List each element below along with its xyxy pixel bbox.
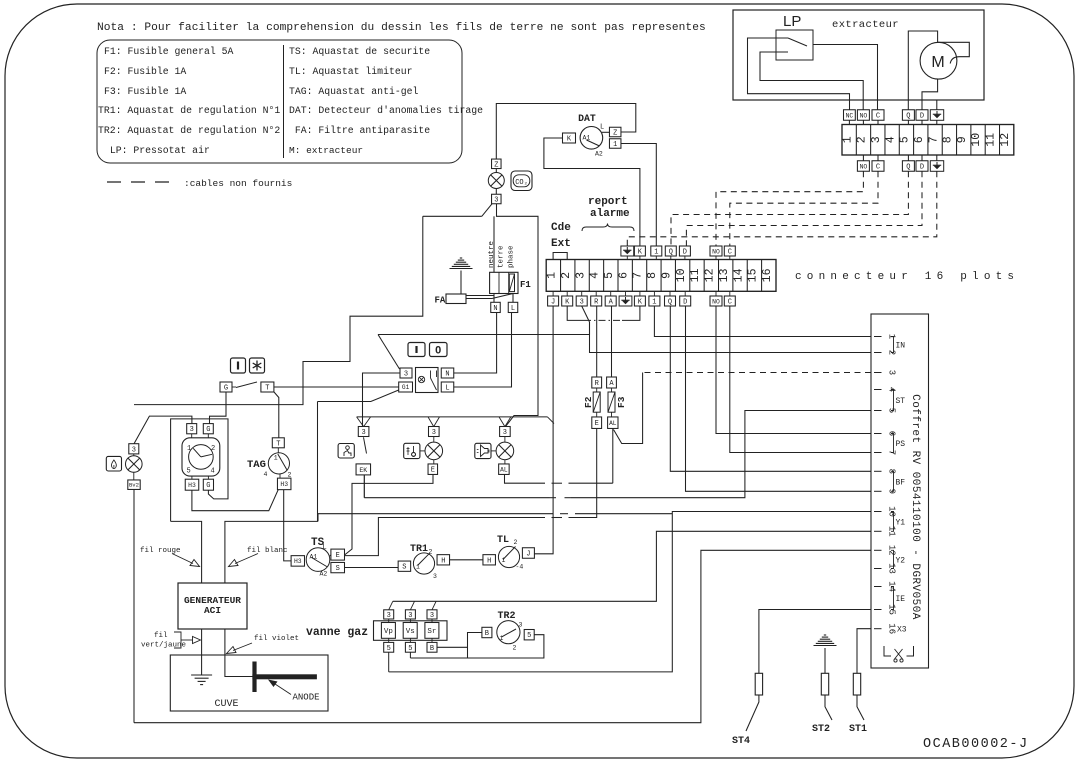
relay box bbox=[416, 368, 439, 393]
terminal E TS bbox=[331, 549, 345, 560]
wire TS E riser bbox=[345, 518, 546, 556]
wire DAT Z to lamp Z bbox=[496, 104, 636, 160]
svg-text:E: E bbox=[595, 420, 599, 428]
coffret pin 10 bbox=[874, 511, 882, 513]
svg-text:10: 10 bbox=[675, 268, 688, 282]
svg-text:12: 12 bbox=[999, 133, 1012, 147]
vanne 3 diagonals bbox=[389, 601, 393, 610]
svg-text:F3: Fusible 1A: F3: Fusible 1A bbox=[104, 86, 186, 97]
signal lamp E bbox=[425, 442, 443, 460]
svg-text:IE: IE bbox=[896, 595, 906, 604]
horn symbol box bbox=[475, 443, 491, 458]
svg-text:11: 11 bbox=[985, 133, 998, 147]
svg-text::cables non fournis: :cables non fournis bbox=[184, 178, 292, 189]
svg-text:H3: H3 bbox=[294, 558, 302, 565]
svg-text:9: 9 bbox=[956, 136, 969, 143]
terminal H TR1 bbox=[437, 555, 450, 565]
wire lamp node down to AL 3 bbox=[497, 204, 539, 427]
terminal Z DAT bbox=[609, 127, 621, 137]
svg-text:H: H bbox=[441, 557, 445, 565]
terminal S TS bbox=[331, 562, 345, 572]
terminal 3 clock bbox=[187, 424, 197, 434]
svg-text:L: L bbox=[445, 385, 449, 393]
wire A down to F3 bbox=[611, 306, 613, 377]
svg-text:3: 3 bbox=[132, 446, 136, 454]
svg-text:3: 3 bbox=[190, 426, 194, 434]
svg-text:X3: X3 bbox=[897, 626, 907, 635]
wire F3 AL down bbox=[612, 429, 614, 484]
fuse F1 bbox=[509, 274, 514, 292]
svg-text:S: S bbox=[402, 564, 406, 572]
valve Vs box bbox=[403, 623, 417, 639]
terminal E lamp bbox=[428, 464, 438, 475]
ST4 leader bbox=[746, 695, 759, 731]
svg-text:5: 5 bbox=[408, 645, 412, 653]
svg-text:5: 5 bbox=[387, 645, 391, 653]
svg-text:3: 3 bbox=[430, 612, 434, 620]
svg-text:8: 8 bbox=[646, 272, 659, 279]
svg-text:fil rouge: fil rouge bbox=[140, 547, 181, 555]
svg-text:fil blanc: fil blanc bbox=[247, 547, 288, 555]
filter FA box bbox=[446, 294, 466, 304]
coffret pin 7 bbox=[874, 452, 882, 454]
terminal earth above 16-plot bbox=[621, 246, 634, 256]
svg-text:Vp: Vp bbox=[384, 628, 393, 636]
svg-text:Vs: Vs bbox=[406, 628, 415, 636]
svg-text:11: 11 bbox=[689, 268, 702, 282]
svg-text:L: L bbox=[323, 544, 327, 552]
svg-text:neutre: neutre bbox=[488, 241, 496, 268]
svg-text:3: 3 bbox=[494, 197, 498, 205]
fuse F2 bbox=[593, 392, 600, 412]
wire LP NC bbox=[748, 38, 850, 110]
coffret pin 14 bbox=[874, 586, 882, 588]
svg-text:2: 2 bbox=[513, 645, 517, 652]
wire pin11 to vanne gaz 3 bbox=[393, 531, 871, 601]
terminal L FA bbox=[508, 302, 518, 312]
terminal AL F3 bbox=[608, 417, 618, 429]
svg-text:S: S bbox=[336, 565, 340, 573]
svg-text:TS: Aquastat de securite: TS: Aquastat de securite bbox=[289, 46, 430, 57]
svg-text:F2: F2 bbox=[583, 396, 594, 408]
terminal 1 above 16-plot bbox=[651, 246, 662, 256]
terminal J TL bbox=[522, 548, 534, 559]
terminal D lower 12plot bbox=[916, 161, 928, 172]
thermostat TR1 circle bbox=[413, 553, 434, 574]
fil rouge arrow bbox=[172, 554, 193, 564]
wire DAT 1 to connector 1 bbox=[621, 144, 656, 247]
svg-text:ANODE: ANODE bbox=[293, 693, 320, 703]
TL blade bbox=[503, 547, 516, 560]
svg-text:N: N bbox=[493, 305, 497, 313]
fil violet arrow bbox=[233, 643, 252, 651]
vanne gaz outer box bbox=[374, 621, 448, 641]
svg-text:8: 8 bbox=[942, 136, 955, 143]
svg-text:3: 3 bbox=[432, 429, 436, 437]
connector 12 plots strip bbox=[842, 125, 1014, 156]
terminal 1 below 16-plot bbox=[649, 296, 660, 306]
svg-text:FA: Filtre antiparasite: FA: Filtre antiparasite bbox=[289, 125, 430, 136]
terminal 3 below 16-plot bbox=[576, 296, 587, 306]
wire EK riser bbox=[364, 497, 549, 499]
coffret pin 16 bbox=[874, 628, 882, 630]
svg-text:F3: F3 bbox=[616, 396, 627, 408]
svg-text:Q: Q bbox=[668, 299, 672, 307]
wire generator anode bbox=[225, 629, 253, 677]
svg-text:vanne gaz: vanne gaz bbox=[306, 626, 368, 639]
svg-text:Cde: Cde bbox=[551, 222, 571, 234]
stub wires 12-plot bottom bbox=[862, 155, 864, 161]
svg-text:Bv2: Bv2 bbox=[129, 482, 139, 489]
terminal T TAG bbox=[272, 438, 284, 448]
coffret pin 2 bbox=[874, 352, 882, 354]
svg-text:OCAB00002-J: OCAB00002-J bbox=[923, 737, 1029, 752]
svg-text:4: 4 bbox=[589, 272, 602, 279]
svg-text:BF: BF bbox=[896, 478, 906, 487]
terminal 3 Vp bbox=[384, 610, 394, 619]
svg-text:NO: NO bbox=[712, 298, 720, 305]
wire motor Q bbox=[908, 31, 937, 110]
earth symbol FA bbox=[460, 257, 462, 259]
svg-text:E: E bbox=[336, 552, 340, 560]
EK switch blade bbox=[364, 437, 367, 453]
terminal 5 Vp bbox=[384, 642, 394, 652]
dashed cable earth to earth bbox=[627, 171, 937, 246]
terminal E F2 bbox=[592, 417, 602, 429]
svg-text:5: 5 bbox=[527, 632, 531, 640]
svg-text:LP: Pressotat air: LP: Pressotat air bbox=[104, 145, 210, 156]
wire lamp switch left to big loop bbox=[423, 215, 482, 217]
svg-text:TL: TL bbox=[497, 535, 509, 546]
wire G1 to fil blanc bbox=[225, 402, 318, 584]
stub wires 12-plot top bbox=[848, 120, 850, 124]
svg-text:EK: EK bbox=[359, 467, 367, 474]
svg-text:FA: FA bbox=[435, 296, 446, 306]
svg-text:B: B bbox=[430, 645, 434, 653]
svg-text:3: 3 bbox=[574, 272, 587, 279]
clock stubs bbox=[191, 434, 193, 438]
terminal 3 AL lamp bbox=[500, 427, 511, 437]
wire clock bracket bbox=[171, 419, 228, 522]
svg-text:E: E bbox=[431, 467, 435, 475]
svg-text:D: D bbox=[683, 249, 687, 257]
svg-text:LP: LP bbox=[783, 13, 801, 30]
svg-text:extracteur: extracteur bbox=[832, 19, 899, 31]
svg-text:ST4: ST4 bbox=[732, 736, 750, 747]
svg-text:ST: ST bbox=[896, 397, 906, 406]
svg-text:ACI: ACI bbox=[204, 605, 221, 616]
terminal G clock bottom bbox=[203, 479, 213, 490]
svg-text:H: H bbox=[487, 557, 491, 565]
wire TR1 H to TL H bbox=[450, 559, 483, 561]
wire Sr B to TR2 B bbox=[437, 646, 468, 648]
svg-text:H3: H3 bbox=[188, 482, 196, 489]
terminal A below 16-plot bbox=[605, 296, 616, 306]
svg-text:1: 1 bbox=[652, 299, 656, 307]
wire T down to TAG T bbox=[274, 392, 279, 438]
terminal EK bbox=[356, 464, 371, 475]
wire Vp 5 down bbox=[388, 652, 390, 672]
wire T to G1 bbox=[274, 386, 399, 388]
svg-text:F2: Fusible 1A: F2: Fusible 1A bbox=[104, 66, 186, 77]
svg-text:G1: G1 bbox=[402, 384, 410, 391]
terminal C upper bbox=[872, 110, 884, 121]
terminal Q below 16-plot bbox=[665, 296, 676, 306]
svg-text:M: extracteur: M: extracteur bbox=[289, 145, 363, 156]
svg-text:terre: terre bbox=[498, 245, 506, 268]
dashed cable Q to Q bbox=[671, 171, 908, 246]
svg-text:Y2: Y2 bbox=[896, 556, 906, 565]
svg-text:3: 3 bbox=[580, 299, 584, 307]
relay coil symbol bbox=[418, 376, 424, 382]
svg-text:3: 3 bbox=[870, 136, 883, 143]
svg-text:alarme: alarme bbox=[590, 208, 630, 220]
coffret pin 8 bbox=[874, 470, 882, 472]
terminal H TL bbox=[483, 555, 496, 565]
stub 3 to lamp Bv2 bbox=[133, 454, 135, 456]
svg-text:6: 6 bbox=[913, 136, 926, 143]
coffret group BF bbox=[891, 471, 894, 491]
terminal NO above 16-plot bbox=[710, 246, 722, 256]
wire C to pin7 bbox=[730, 306, 871, 453]
terminal 3 relay bbox=[400, 368, 412, 378]
coffret group Y1 bbox=[891, 512, 894, 532]
wire pin5 to EK bbox=[571, 411, 871, 498]
filter block bbox=[490, 272, 518, 293]
pressure switch LP contact bbox=[776, 37, 788, 39]
thermostat TR2 circle bbox=[497, 621, 520, 644]
label I small box bbox=[231, 358, 246, 373]
coffret pin 9 bbox=[874, 490, 882, 492]
terminal G clock top bbox=[203, 424, 213, 434]
terminal K below 16-plot bbox=[634, 296, 645, 306]
wire big loop upper bbox=[134, 216, 423, 404]
svg-text:1: 1 bbox=[546, 272, 559, 279]
signal lamp CO2 bbox=[488, 173, 504, 189]
terminal Q upper bbox=[902, 110, 914, 121]
terminal NC bbox=[844, 110, 856, 121]
thermostat TAG circle bbox=[268, 453, 289, 474]
terminal AL lamp bbox=[499, 464, 510, 475]
coffret pin 5 bbox=[874, 410, 882, 412]
svg-text:TR2: Aquastat de regulation N°: TR2: Aquastat de regulation N°2 bbox=[98, 125, 280, 136]
lamp E stubs bbox=[433, 437, 435, 443]
svg-text:3: 3 bbox=[887, 370, 897, 375]
bus diagonal mid-l bbox=[428, 417, 434, 427]
signal lamp Bv2 bbox=[126, 456, 143, 473]
terminal 3 Sr bbox=[427, 610, 437, 619]
cuve earth symbol bbox=[191, 674, 212, 676]
coffret group Y2 bbox=[891, 550, 894, 568]
svg-text:15: 15 bbox=[747, 268, 760, 282]
coffret pin 11 bbox=[874, 530, 882, 532]
wire 3 to pin2 bbox=[590, 322, 872, 353]
svg-text:A2: A2 bbox=[320, 571, 328, 578]
svg-text:5: 5 bbox=[603, 272, 616, 279]
wire E lamp to TS E bbox=[345, 475, 434, 556]
svg-text:T: T bbox=[276, 440, 280, 448]
svg-text:1: 1 bbox=[274, 455, 278, 462]
dashed cable NO to NO bbox=[716, 171, 863, 246]
anode arrow bbox=[272, 682, 291, 695]
svg-text:1: 1 bbox=[613, 141, 617, 149]
TAG blade bbox=[278, 454, 288, 471]
svg-text:7: 7 bbox=[927, 136, 940, 143]
terminal Z lamp bbox=[492, 159, 502, 169]
Cde Ext bridge cells 1-2 bbox=[553, 253, 567, 260]
svg-text:L: L bbox=[600, 124, 604, 132]
svg-text:fil violet: fil violet bbox=[254, 635, 299, 643]
svg-text:3: 3 bbox=[387, 612, 391, 620]
svg-text:16: 16 bbox=[761, 268, 774, 282]
svg-text:16: 16 bbox=[887, 623, 897, 634]
TAG stubs bbox=[277, 448, 279, 453]
stub lamp to 3 bbox=[495, 189, 497, 195]
svg-text:A2: A2 bbox=[595, 151, 603, 158]
earth stem FA bbox=[460, 271, 462, 295]
svg-text:4: 4 bbox=[264, 471, 268, 478]
svg-text:Q: Q bbox=[906, 164, 910, 172]
dashed wire pin3 to AL bbox=[643, 372, 871, 374]
wire DAT K to connector K bbox=[544, 138, 640, 246]
terminal T switch bbox=[261, 382, 274, 392]
wire D to pin9 bbox=[686, 306, 872, 491]
wire EK down bbox=[363, 475, 365, 498]
svg-text:7: 7 bbox=[632, 272, 645, 279]
svg-text:2: 2 bbox=[514, 539, 518, 546]
cuve box bbox=[170, 655, 328, 711]
terminal A F3 bbox=[607, 377, 617, 388]
svg-text:D: D bbox=[683, 299, 687, 307]
svg-text:F1: Fusible general 5A: F1: Fusible general 5A bbox=[104, 46, 233, 57]
terminal D upper bbox=[916, 110, 928, 121]
svg-text:NO: NO bbox=[712, 248, 720, 255]
coffret RV box bbox=[871, 314, 929, 668]
svg-text:3: 3 bbox=[503, 429, 507, 437]
stub neutre down to N bbox=[493, 294, 495, 303]
terminal K DAT bbox=[563, 133, 576, 143]
label snowflake box bbox=[250, 358, 265, 373]
wire motor earth bbox=[936, 100, 938, 110]
bus diagonal left bbox=[357, 417, 364, 427]
generateur ACI box bbox=[178, 583, 247, 629]
svg-text:3: 3 bbox=[408, 612, 412, 620]
thermostat TS circle bbox=[306, 548, 330, 572]
svg-text:Ext: Ext bbox=[551, 238, 571, 250]
terminal G switch bbox=[220, 382, 232, 392]
svg-text:DAT: DAT bbox=[578, 113, 596, 124]
svg-text:TAG: Aquastat anti-gel: TAG: Aquastat anti-gel bbox=[289, 86, 418, 97]
relay contact bbox=[430, 371, 432, 379]
svg-text:6: 6 bbox=[617, 272, 630, 279]
svg-text:B: B bbox=[485, 630, 489, 638]
terminal earth below 16-plot bbox=[619, 296, 632, 306]
svg-text:TAG: TAG bbox=[247, 459, 266, 471]
wire Bv2 down outer loop bbox=[133, 490, 135, 723]
legend box bbox=[97, 40, 462, 163]
bus diagonal right bbox=[499, 417, 505, 427]
dashed cable D to D bbox=[686, 171, 922, 246]
valve Vp box bbox=[381, 623, 395, 639]
svg-text:L: L bbox=[511, 305, 515, 313]
svg-text:M: M bbox=[931, 54, 944, 71]
terminal B TR2 bbox=[482, 627, 492, 637]
clock body bbox=[182, 438, 220, 476]
coffret group ST bbox=[891, 390, 894, 411]
terminal 3 E lamp bbox=[429, 427, 440, 437]
coffret bottom bracket bbox=[884, 646, 891, 656]
report alarme brace bbox=[582, 224, 634, 232]
TR2 blade bbox=[502, 629, 517, 637]
svg-text:C: C bbox=[876, 164, 880, 172]
svg-text:4: 4 bbox=[211, 468, 215, 476]
svg-text:3: 3 bbox=[519, 622, 523, 629]
terminal R F2 bbox=[592, 377, 602, 388]
terminal NO upper bbox=[857, 110, 869, 121]
wire pin10 branch left bbox=[575, 513, 672, 515]
DAT blade bbox=[587, 140, 600, 146]
svg-text:-4: -4 bbox=[516, 564, 524, 571]
coffret group IN bbox=[891, 337, 894, 353]
fil blanc arrow bbox=[235, 554, 258, 564]
motor M volute bbox=[938, 42, 970, 63]
svg-text:13: 13 bbox=[718, 268, 731, 282]
svg-text:TL: Aquastat limiteur: TL: Aquastat limiteur bbox=[289, 66, 412, 77]
terminal J below 16-plot bbox=[548, 296, 559, 306]
terminal earth lower 12plot bbox=[930, 161, 943, 172]
TS blade bbox=[312, 558, 328, 568]
svg-text:NO: NO bbox=[860, 112, 868, 119]
svg-text:T: T bbox=[265, 385, 269, 393]
wire pin10 to vanne gaz 5 bbox=[389, 512, 871, 672]
signal lamp AL bbox=[496, 442, 514, 460]
coffret pin 4 bbox=[874, 389, 882, 391]
svg-text:D: D bbox=[920, 164, 924, 172]
wire lamp bus bbox=[357, 416, 548, 418]
sensor ST2 bbox=[821, 673, 828, 695]
terminal D below 16-plot bbox=[680, 296, 691, 306]
stub Z to lamp bbox=[495, 169, 497, 173]
ST1 leader bbox=[857, 695, 864, 720]
terminal L relay bbox=[441, 382, 454, 392]
svg-text:C: C bbox=[728, 299, 732, 307]
coffret pin 15 bbox=[874, 609, 882, 611]
svg-text:NO: NO bbox=[860, 163, 868, 170]
svg-text:Z: Z bbox=[494, 161, 498, 169]
wire K2 link bbox=[567, 306, 584, 320]
DAT L tick bbox=[602, 131, 610, 133]
wire F2 E down bbox=[596, 429, 598, 484]
label I box bbox=[408, 343, 425, 357]
svg-text:F1: F1 bbox=[520, 280, 531, 290]
fuse F3 bbox=[608, 392, 615, 412]
wire TAG H3 down to TS bbox=[284, 490, 291, 561]
TR1 blade bbox=[418, 553, 431, 566]
wire AL lamp to F3 AL bbox=[505, 475, 546, 484]
coffret pin 12 bbox=[874, 549, 882, 551]
coffret pin 1 bbox=[874, 336, 882, 338]
svg-text:2: 2 bbox=[288, 472, 292, 479]
svg-text:report: report bbox=[588, 196, 628, 208]
terminal earth upper bbox=[930, 110, 943, 121]
wire J down to TL bbox=[534, 306, 553, 554]
svg-text:D: D bbox=[920, 113, 924, 121]
svg-text:G: G bbox=[224, 385, 228, 393]
terminal 3 Bv2 bbox=[129, 444, 139, 454]
svg-text:J: J bbox=[526, 551, 530, 559]
ST2 earth symbol bbox=[824, 634, 826, 636]
wire node to relay 3 bbox=[378, 334, 590, 336]
